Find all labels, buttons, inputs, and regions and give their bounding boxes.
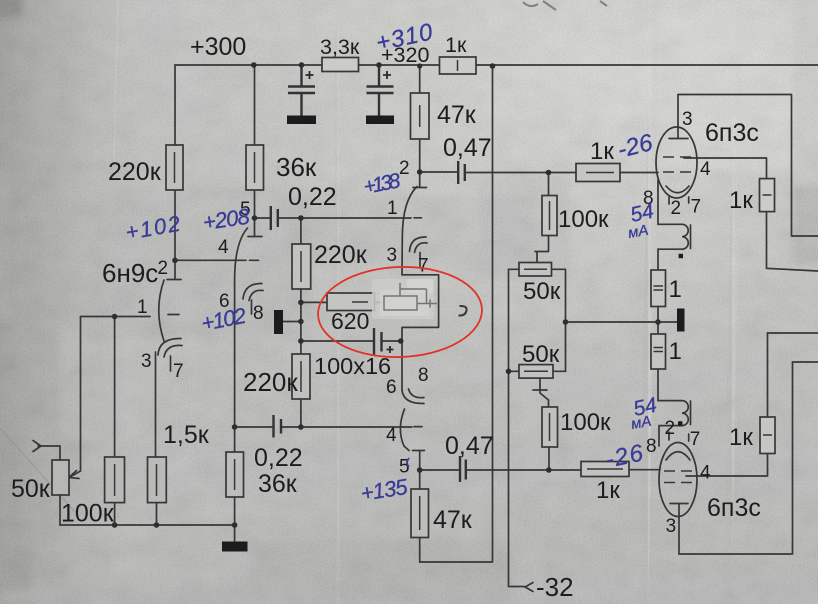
svg-text:220к: 220к [243, 367, 298, 397]
svg-text:0,47: 0,47 [445, 432, 494, 460]
svg-text:1к: 1к [445, 33, 467, 57]
svg-text:6п3с: 6п3с [705, 119, 759, 147]
svg-text:620: 620 [331, 308, 369, 334]
svg-text:6п3с: 6п3с [707, 494, 761, 522]
svg-text:2: 2 [665, 418, 676, 439]
svg-text:1к: 1к [729, 187, 753, 214]
svg-text:0,47: 0,47 [443, 134, 492, 162]
svg-text:2: 2 [399, 158, 410, 179]
svg-text:-32: -32 [536, 572, 574, 602]
svg-text:50к: 50к [523, 278, 561, 305]
svg-text:47к: 47к [433, 506, 473, 534]
svg-text:50к: 50к [522, 341, 560, 368]
svg-text:2: 2 [671, 198, 682, 219]
svg-text:1: 1 [669, 276, 682, 303]
svg-text:1,5к: 1,5к [163, 421, 210, 449]
svg-text:3: 3 [682, 109, 693, 130]
svg-text:1к: 1к [729, 424, 753, 451]
svg-text:3: 3 [666, 516, 677, 537]
svg-text:мА: мА [627, 222, 650, 242]
svg-text:36к: 36к [276, 152, 317, 182]
svg-text:6н9с: 6н9с [102, 258, 158, 288]
svg-text:0,22: 0,22 [254, 444, 303, 472]
svg-text:220к: 220к [108, 158, 162, 186]
svg-text:36к: 36к [258, 470, 298, 498]
svg-text:4: 4 [386, 425, 397, 446]
svg-text:3: 3 [387, 245, 398, 266]
svg-text:47к: 47к [437, 101, 477, 129]
svg-text:3: 3 [141, 351, 152, 372]
svg-text:мА: мА [630, 413, 653, 433]
svg-text:+300: +300 [190, 33, 246, 61]
svg-text:2: 2 [158, 258, 169, 279]
svg-text:8: 8 [646, 436, 657, 457]
svg-text:7: 7 [418, 256, 429, 277]
svg-text:1к: 1к [596, 477, 620, 504]
svg-text:4: 4 [700, 159, 711, 180]
svg-text:1к: 1к [590, 138, 614, 165]
svg-text:1: 1 [387, 198, 398, 219]
svg-text:6: 6 [386, 377, 397, 398]
svg-text:4: 4 [218, 237, 229, 258]
svg-text:1: 1 [137, 297, 148, 318]
svg-text:7: 7 [691, 197, 702, 218]
svg-text:50к: 50к [11, 475, 51, 503]
svg-text:7: 7 [173, 361, 184, 382]
svg-text:220к: 220к [314, 241, 368, 269]
svg-text:100к: 100к [558, 206, 609, 233]
svg-text:8: 8 [253, 303, 264, 324]
svg-text:8: 8 [418, 365, 429, 386]
svg-text:7: 7 [690, 429, 701, 450]
svg-text:1: 1 [669, 338, 682, 365]
svg-text:3,3к: 3,3к [320, 35, 360, 59]
svg-text:100к: 100к [560, 409, 611, 436]
svg-text:4: 4 [700, 463, 711, 484]
svg-text:100к: 100к [61, 500, 115, 528]
svg-text:0,22: 0,22 [288, 183, 337, 211]
